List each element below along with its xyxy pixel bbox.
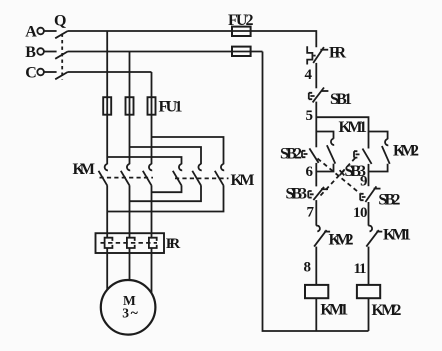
- contactor KM2 NC interlock contact (left branch): [314, 226, 330, 247]
- wire phase B vertical: [129, 52, 131, 165]
- svg-text:3: 3: [122, 306, 129, 321]
- wire crossover A to contact 4: [107, 157, 181, 164]
- thermal relay FR heater element 1: [105, 238, 113, 248]
- svg-text:KM2: KM2: [372, 302, 402, 319]
- linkage crossing mark: [340, 170, 345, 175]
- svg-text:11: 11: [354, 261, 367, 277]
- wire crossover B to contact 5: [130, 147, 202, 164]
- wire KM1 aux loop bottom: [316, 164, 333, 172]
- wire phase A top line to control corner: [68, 31, 316, 47]
- svg-text:C: C: [25, 64, 37, 81]
- switch Q linkage (dashed): [61, 34, 63, 80]
- wire contact 4 bottom to phase C motor wire: [152, 186, 182, 192]
- contactor KM forward main contact 3: [143, 164, 152, 186]
- wire phase C line: [68, 71, 152, 73]
- svg-text:SB2: SB2: [280, 146, 302, 163]
- svg-text:Q: Q: [54, 13, 66, 30]
- fuse FU1 element 1: [103, 97, 111, 115]
- contactor KM2 aux NO contact: [382, 139, 390, 164]
- wire KM1 NC to coil KM2: [368, 247, 370, 285]
- contactor KM reverse main contact 5: [192, 164, 201, 186]
- wire phase B line to return corner: [68, 51, 263, 53]
- wire node 5 to right branch: [316, 117, 368, 148]
- svg-text:B: B: [25, 44, 36, 61]
- wire contact 5 bottom to phase B motor wire: [130, 186, 202, 201]
- wire B terminal to switch: [44, 51, 57, 53]
- wire motor phase A vertical: [106, 186, 108, 291]
- svg-text:FR: FR: [166, 236, 180, 252]
- wire crossover C to contact 6: [152, 137, 224, 164]
- svg-text:KM: KM: [73, 161, 96, 178]
- wire contact 6 bottom to phase A motor wire: [107, 186, 223, 212]
- coil KM1: [305, 285, 328, 298]
- wire phase A vertical: [106, 31, 108, 164]
- wire KM2 NC to coil KM1: [315, 247, 317, 285]
- svg-text:SB1: SB1: [330, 91, 352, 108]
- contactor KM1 NC interlock contact (right branch): [366, 226, 382, 247]
- svg-text:9: 9: [360, 174, 368, 190]
- svg-text:SB3: SB3: [286, 186, 308, 203]
- coil KM2: [357, 285, 380, 298]
- wire KM2 aux loop bottom: [369, 164, 388, 172]
- contactor KM reverse main contact 6: [215, 164, 224, 186]
- wire KM2 aux loop top: [369, 132, 388, 140]
- thermal relay FR NC contact (control): [307, 46, 328, 64]
- thermal relay FR heater element 3: [149, 238, 157, 248]
- phase terminal A: [37, 28, 44, 35]
- thermal relay FR heater element 2: [127, 238, 135, 248]
- pushbutton SB2 NC contact (right branch): [360, 186, 380, 202]
- svg-text:FR: FR: [329, 45, 346, 62]
- wire SB2 right to KM1 NC: [368, 202, 370, 226]
- svg-text:6: 6: [306, 164, 314, 180]
- wire SB1 to node 5 and down: [315, 102, 317, 148]
- wire control return (left vertical + bottom): [263, 52, 369, 332]
- svg-text:8: 8: [304, 259, 312, 275]
- svg-text:SB2: SB2: [378, 191, 400, 208]
- contactor KM forward linkage (dashed): [100, 177, 154, 179]
- fuse FU1 element 2: [126, 97, 134, 115]
- contactor KM reverse main contact 4: [173, 164, 182, 186]
- wire SB3 to KM2 NC: [315, 200, 317, 226]
- mechanical linkage SB3 (dashed): [321, 156, 358, 196]
- wire KM1 aux loop top: [316, 132, 333, 139]
- svg-text:~: ~: [131, 306, 139, 321]
- pushbutton SB3 NC contact (left branch): [308, 187, 328, 200]
- contactor KM forward main contact 1: [99, 164, 108, 186]
- mechanical linkage SB2 (dashed): [318, 159, 361, 194]
- wire FR to SB1: [315, 63, 317, 88]
- switch Q pole 2 blade: [55, 51, 68, 58]
- contactor KM1 aux NO contact: [327, 139, 335, 164]
- wire A terminal to switch: [44, 30, 57, 32]
- thermal relay FR linkage (dashed): [101, 242, 158, 244]
- svg-text:10: 10: [353, 205, 368, 221]
- motor M circle: [101, 280, 156, 335]
- fuse FU2 element 2: [232, 47, 251, 56]
- svg-text:KM1: KM1: [320, 302, 348, 319]
- wire motor phase B vertical: [129, 186, 131, 281]
- wire coil KM1 to bottom: [315, 298, 317, 331]
- wire SB2 to node 6: [315, 163, 317, 187]
- wire SB3 right to SB2 NC: [368, 164, 370, 186]
- wire phase C vertical: [151, 72, 153, 164]
- thermal relay FR box: [96, 233, 165, 253]
- switch Q pole 3 blade: [55, 72, 68, 79]
- pushbutton SB3 NO contact (right branch): [354, 149, 372, 164]
- wire coil KM2 to bottom: [368, 298, 370, 331]
- svg-text:4: 4: [305, 67, 313, 83]
- phase terminal B: [37, 48, 44, 55]
- pushbutton SB1 (NC): [309, 88, 329, 103]
- svg-text:KM1: KM1: [383, 227, 411, 244]
- wire motor phase C vertical: [151, 186, 153, 294]
- svg-text:7: 7: [307, 204, 315, 220]
- svg-text:KM: KM: [231, 172, 255, 189]
- svg-text:FU1: FU1: [159, 99, 183, 116]
- svg-text:5: 5: [306, 108, 314, 124]
- svg-text:A: A: [25, 23, 37, 40]
- svg-text:KM2: KM2: [329, 231, 354, 248]
- wire C terminal to switch: [44, 71, 57, 73]
- phase terminal C: [37, 69, 44, 76]
- pushbutton SB2 NO contact (left branch): [302, 148, 319, 163]
- contactor KM forward main contact 2: [121, 164, 130, 186]
- contactor KM reverse linkage (dashed): [175, 177, 229, 179]
- fuse FU2 element 1: [232, 27, 251, 36]
- fuse FU1 element 3: [148, 97, 156, 115]
- svg-text:KM1: KM1: [339, 119, 368, 136]
- svg-text:KM2: KM2: [393, 142, 419, 159]
- switch Q pole 1 blade: [55, 31, 68, 38]
